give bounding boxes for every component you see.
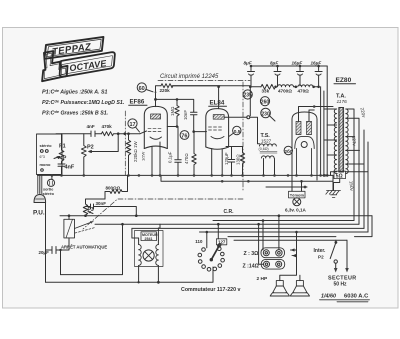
svg-text:P3:Cde Graves :250k B S1.: P3:Cde Graves :250k B S1. [42,110,109,116]
commutator wiper tip [219,243,222,246]
svg-text:P1:Cde Aigües :250k A. S1: P1:Cde Aigües :250k A. S1 [42,89,107,95]
resistor 1M [170,99,179,126]
motor 2541 [135,231,164,283]
inner loop bottom [61,224,123,274]
potentiometer P1 [54,134,67,163]
Z feeds from bundle [259,216,279,265]
resistor 4700 [278,85,296,87]
resistor 470 [184,132,196,176]
vertical x372 from CR [355,216,373,237]
svg-text:stéréo: stéréo [40,143,53,148]
svg-text:260: 260 [261,99,270,105]
relay top feed [68,216,70,220]
chassis return line C.R. [60,215,372,217]
svg-text:8μF: 8μF [270,61,278,66]
dash-dot chassis line bottom [83,199,243,229]
tap label 127 [216,239,226,245]
T.A. primary taps [324,109,337,175]
svg-text:P1: P1 [59,144,66,150]
tube EL84 [206,100,229,177]
svg-text:1/2W: 1/2W [141,151,146,161]
dash-dot pcb boundary right [242,82,244,192]
svg-text:Inter.: Inter. [314,248,327,254]
tube EZ80 [292,112,317,180]
node 260 callout [260,97,269,106]
EL84 screen feed [218,87,220,109]
anode wire EF86 [167,126,178,128]
svg-text:220kΩ 1W: 220kΩ 1W [133,141,138,162]
svg-text:Circuit imprimé 12245: Circuit imprimé 12245 [160,74,219,80]
B+ drop to anode node [249,87,251,116]
svg-text:8μF: 8μF [244,61,252,66]
svg-text:230: 230 [261,111,270,117]
T.A. secondary taps [346,109,368,172]
wire HV column b / ground rail drop [326,66,328,175]
svg-text:17: 17 [130,122,136,128]
resistor 800 feedback [105,175,128,199]
P.U. extra pin [38,175,42,194]
resistor 220k grid leak [126,134,145,176]
wire bundle h2 [213,220,354,222]
pot legend text lines [42,89,125,116]
svg-text:30nF: 30nF [96,201,107,206]
wire grid line [56,133,91,135]
speaker wires [280,232,300,281]
svg-text:P2: P2 [87,145,94,151]
pot P3 with 30nF [83,199,136,216]
svg-text:60: 60 [139,86,145,92]
svg-text:1527: 1527 [261,138,272,143]
capacitor 4nF series [87,124,102,137]
transformer T.A. core [339,108,344,173]
transformer T.S. 1527 [259,133,278,176]
svg-text:4nF: 4nF [65,165,75,171]
node 60 callout [137,83,153,92]
node 230 callout [261,108,275,121]
sortie stereo jack [43,175,55,196]
svg-text:Témoin: Témoin [290,193,305,198]
svg-text:20μF: 20μF [39,250,50,255]
capacitor 16uF no1 [292,61,304,86]
tube EF86 [129,99,168,177]
mains bundle verticals right [354,113,368,233]
motor feeds [132,224,160,240]
svg-text:76: 76 [181,133,187,139]
EZ80 plate feeds [299,107,334,122]
svg-text:33k: 33k [262,89,270,94]
svg-text:470Ω: 470Ω [298,89,310,94]
node grid junction [117,132,120,135]
HT output wire [320,87,322,176]
loudspeaker 2 [290,281,309,296]
grid wire to EL84 [194,131,207,133]
bus junctions [51,174,327,188]
svg-text:2б0: 2б0 [285,148,293,154]
svg-text:125μF: 125μF [224,152,229,165]
screen feed wire [156,99,194,111]
capacitor 4nF at P1 foot [58,163,75,177]
svg-text:0,5: 0,5 [234,129,241,135]
svg-text:1/4/60: 1/4/60 [321,294,336,300]
lamp temoin [285,175,307,212]
svg-text:2541: 2541 [145,237,153,241]
capacitor 10nF [183,110,197,132]
Z output terminals [243,248,297,270]
svg-text:4nF: 4nF [87,124,95,129]
capacitor 8uF no2 [270,61,281,86]
transformer T.A. secondary winding [346,109,348,174]
capacitor 16uF no2 [311,61,323,86]
wire bundle h5 [200,231,369,233]
resistor 130 cathode [236,147,245,177]
motor bottom wire [46,267,214,282]
svg-text:0,1μF: 0,1μF [168,151,173,163]
svg-text:5Ω: 5Ω [336,173,343,179]
wire P2 wiper up [95,134,119,152]
Teppaz L'Octave logo [38,37,117,81]
wire grid to EF86 [140,131,147,134]
heater bus 1 [38,174,334,176]
cathode wire EL84 [226,146,243,148]
svg-text:ARRÊT AUTOMATIQUE: ARRÊT AUTOMATIQUE [61,245,107,250]
svg-text:6030 A.C: 6030 A.C [344,294,369,300]
P.U. pickup plug [33,175,46,216]
svg-text:1176: 1176 [337,99,348,105]
resistor 220k screen top [160,84,221,93]
svg-text:mono: mono [40,162,51,167]
svg-text:Commutateur 117-220 v: Commutateur 117-220 v [181,287,241,293]
svg-text:6°3: 6°3 [40,155,45,159]
svg-text:50 Hz: 50 Hz [334,282,348,288]
svg-text:C.R.: C.R. [224,209,235,215]
svg-text:P.U.: P.U. [33,210,45,217]
svg-text:2 HP: 2 HP [257,276,268,282]
dash-dot pcb boundary left [124,111,126,175]
ground [326,191,341,198]
node 17 callout [128,119,140,132]
wire bundle h4 [132,227,364,229]
loudspeaker 1 [270,281,289,296]
capacitor 8uF no1 [244,61,255,86]
svg-text:sortie: sortie [43,188,53,192]
svg-text:P2: P2 [318,255,324,260]
node 0.5 callout [229,126,241,136]
heater bus 2 [161,175,333,181]
svg-text:1MΩ: 1MΩ [170,106,175,116]
switch inter P2 [314,240,349,272]
wire HV column a [323,91,325,175]
svg-text:220k: 220k [160,88,171,93]
svg-text:P2:Cde Puissance:1MΩ LogD S1.: P2:Cde Puissance:1MΩ LogD S1. [42,100,125,106]
capacitor 0.1uF [168,127,182,177]
resistor 33k [261,84,276,89]
ground wire from TA [334,179,340,191]
svg-text:800ΩΩ: 800ΩΩ [106,186,121,191]
node 76 callout [180,131,189,140]
anode supply wire EF86 [156,86,162,107]
transformer T.A. primary winding [334,109,336,174]
svg-text:T.A.: T.A. [336,94,346,100]
node 235 callout [243,90,252,99]
svg-text:16μF: 16μF [311,61,322,66]
circuit imprime label [158,74,250,81]
svg-text:EZ80: EZ80 [336,77,352,84]
svg-text:stéréo: stéréo [43,192,55,196]
ground drop from bus [332,175,334,190]
svg-text:470k: 470k [102,124,113,129]
svg-text:(0,6Ω): (0,6Ω) [259,147,269,151]
anode wire EL84 [224,116,247,118]
wire inter feed 2 [234,239,347,241]
svg-text:EL84: EL84 [210,100,225,107]
ground rail top [251,65,328,67]
svg-text:Z : 3Ω: Z : 3Ω [244,251,259,257]
svg-text:16μF: 16μF [292,61,303,66]
wire bundle h3 [95,223,359,225]
svg-text:235: 235 [244,93,253,99]
svg-text:110: 110 [195,239,203,244]
resistor 470b [298,85,319,87]
left outer loop wire [45,203,47,282]
relay arret automatique [61,219,107,249]
wire inter feed 1 [228,236,336,238]
fuse box 5ohm [334,171,346,179]
stereo cartridge box [37,134,63,175]
svg-text:10nF: 10nF [183,110,188,120]
svg-text:Z :14Ω: Z :14Ω [243,264,259,270]
svg-text:470Ω: 470Ω [184,153,189,164]
svg-text:130Ω: 130Ω [236,154,241,165]
capacitor 125uF cathode [224,147,235,177]
potentiometer P2 [81,134,118,176]
svg-text:EF86: EF86 [130,99,145,106]
capacitor 20uF [39,238,70,275]
svg-text:6,3v. 0,1A: 6,3v. 0,1A [285,208,307,213]
svg-text:4700Ω: 4700Ω [278,89,292,94]
HT rail with filter resistors [172,86,261,87]
resistor 470k [102,124,141,136]
node 26 callout [284,146,293,154]
heater stub line [266,186,307,188]
commutator voltage selector [195,223,226,271]
